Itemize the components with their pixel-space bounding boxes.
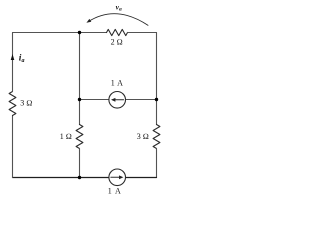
wire right lower (156, 149, 158, 178)
svg-text:va: va (116, 2, 122, 12)
wire middle vertical upper (top node to mid node) (79, 33, 81, 100)
wire left lower (12, 116, 14, 178)
voltage arc arrowhead (86, 19, 91, 23)
svg-text:1 A: 1 A (108, 187, 122, 196)
current source I2 circle (1 A, arrow right) (109, 169, 126, 186)
current source I1 arrowhead (111, 98, 115, 102)
wire top-left segment (13, 32, 107, 34)
svg-text:1 A: 1 A (111, 79, 124, 88)
wire middle horizontal left of source (80, 99, 109, 101)
wire bottom-left segment (13, 177, 80, 179)
resistor R_right 3ohm zigzag (153, 125, 160, 149)
branch current arrow i (up, on left wire) (11, 54, 15, 60)
wire bottom between source and mid node (80, 177, 109, 179)
resistor R_mid 1ohm zigzag (76, 125, 83, 149)
node D (bottom middle) (78, 176, 81, 179)
svg-text:ia: ia (19, 53, 25, 64)
wire right from node to resistor (156, 100, 158, 125)
node A (top middle) (78, 31, 81, 34)
wire bottom-right segment (126, 177, 157, 179)
node B (middle junction) (78, 98, 81, 101)
wire top-right segment (128, 32, 157, 34)
wire left upper (12, 33, 14, 92)
resistor R_top 2ohm zigzag (107, 29, 128, 35)
svg-text:2 Ω: 2 Ω (111, 37, 123, 46)
current source I2 arrow shaft (111, 176, 120, 178)
svg-text:3 Ω: 3 Ω (20, 98, 32, 107)
wire middle vertical from mid node to resistor (79, 100, 81, 125)
current source I1 arrow shaft (114, 99, 123, 101)
wire right upper (top-right corner to right node) (156, 33, 158, 100)
svg-text:1 Ω: 1 Ω (60, 132, 72, 141)
resistor R_left 3ohm zigzag (9, 92, 16, 116)
node C (right junction) (155, 98, 158, 101)
wire middle horizontal right of source (126, 99, 157, 101)
voltage arc v across 2 ohm (89, 14, 149, 26)
current source I1 circle (1 A, arrow left) (109, 92, 126, 109)
svg-text:3 Ω: 3 Ω (137, 132, 149, 141)
wire middle vertical lower (79, 149, 81, 178)
current source I2 arrowhead (119, 175, 123, 179)
